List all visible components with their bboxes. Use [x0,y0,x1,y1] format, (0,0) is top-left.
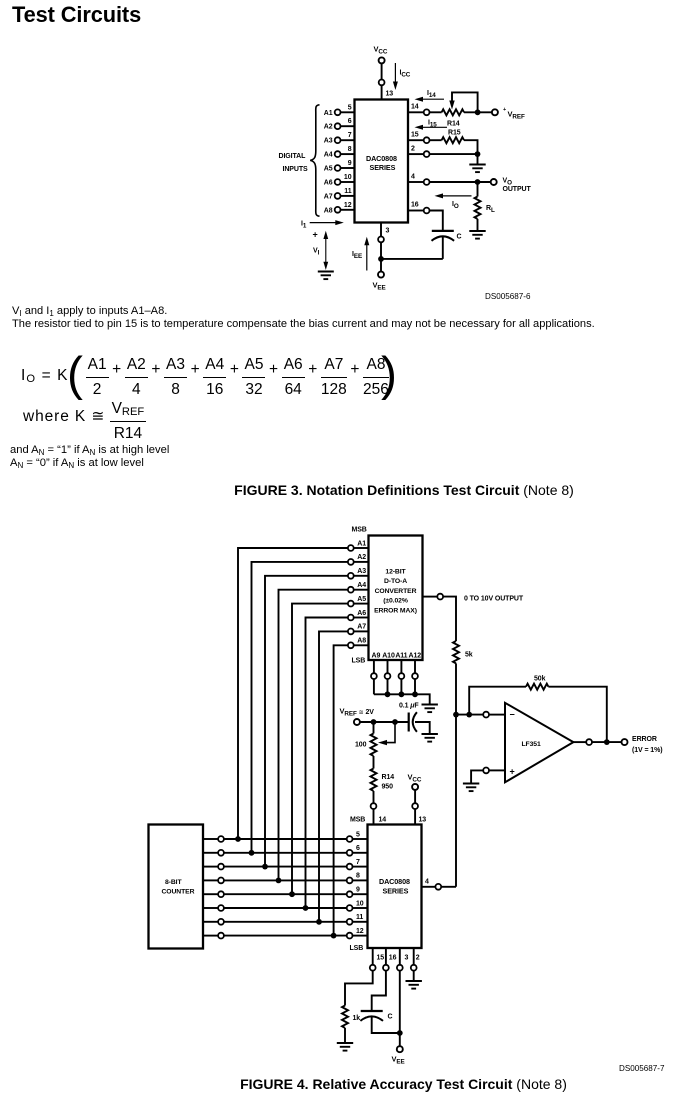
svg-text:3: 3 [405,955,409,962]
wire pin14 [408,111,424,113]
ground at pin2 (fig4) [406,981,422,989]
wire counter to pin 12 [203,935,218,937]
wire LSB common bus to ground [374,694,430,703]
svg-text:COUNTER: COUNTER [162,889,195,896]
wire pin4 to 5k vertical [441,886,456,888]
svg-text:IEE: IEE [352,251,362,260]
wire R15 down to pin2 node [464,140,478,154]
svg-text:VREF ≅ 2V: VREF ≅ 2V [340,707,375,718]
current arrow IEE [352,237,369,271]
terminal A7 [335,193,341,199]
pin 3 circle [378,237,384,243]
wire A4 stub [354,589,369,591]
counter output circle (line 12) [218,933,224,939]
IC U2 12-bit D-to-A converter [369,536,423,661]
wire A5 pin 9 [340,167,354,169]
wire pin2 to ground [413,971,415,980]
terminal A8 converter [348,642,354,648]
svg-text:A2: A2 [324,124,333,131]
current arrow ICC [393,63,411,90]
wire A7 stub [354,630,369,632]
svg-text:4: 4 [425,879,429,886]
wire pot to R14 [373,756,375,769]
wire pin16 to capacitor C [408,210,424,212]
wire pin3 stub [380,223,382,237]
wire A8 run down [334,645,348,933]
wire R14 to pin 14 [373,791,375,803]
pin 14 circle [424,109,430,115]
note line 2 [12,318,595,330]
pin 16 circle [424,208,430,214]
svg-text:8: 8 [348,146,352,153]
wire A9 stub [373,660,375,673]
wire A8 pin 12 [340,209,354,211]
svg-text:ERROR: ERROR [632,736,657,743]
svg-text:DAC0808: DAC0808 [366,154,397,163]
junction node pin3/VEE [378,256,384,262]
inverting input circle [483,712,489,718]
terminal A4 converter [348,587,354,593]
pin 4 wire (DAC fig4) [422,886,436,888]
svg-text:VEE: VEE [392,1055,405,1066]
svg-text:C: C [457,234,462,241]
output pin wire (converter) [423,596,438,598]
wire VREF line [360,721,408,723]
wire A7 run down [319,631,348,919]
pin 15 circle [424,137,430,143]
wire pin15 [408,139,424,141]
ground below VI [318,272,334,280]
svg-text:IO: IO [452,201,459,210]
terminal A2 [335,123,341,129]
counter output circle (line 5) [218,836,224,842]
svg-text:A3: A3 [324,138,333,145]
pin 13 circle (DAC fig4) [412,803,418,809]
junction node pin4/VO [475,179,481,185]
svg-text:A4: A4 [324,152,333,159]
svg-text:SERIES: SERIES [370,163,396,172]
svg-text:100: 100 [355,742,367,749]
svg-text:RL: RL [486,205,495,214]
wire A1 stub [354,547,369,549]
counter output circle (line 11) [218,919,224,925]
IC U1 DAC0808 SERIES (Figure 3) [355,100,409,223]
wire A5 run down [292,604,348,892]
svg-text:0 TO 10V OUTPUT: 0 TO 10V OUTPUT [464,596,524,603]
input pins A1-A8 wires (Figure 3) [340,112,354,210]
junction dot at op-amp node [453,712,459,718]
svg-text:I14: I14 [427,90,436,99]
ground at pin2 node [469,165,485,173]
svg-text:A7: A7 [357,624,366,631]
svg-text:10: 10 [356,900,364,907]
svg-text:ERROR MAX): ERROR MAX) [374,607,417,614]
DAC pin 12 circle [347,933,353,939]
junction A8/12 [331,933,337,939]
svg-text:10: 10 [344,174,352,181]
label DIGITAL INPUTS [279,153,309,173]
junction node pin2 [475,151,481,157]
wire pin 15 stub [372,948,374,965]
svg-text:CONVERTER: CONVERTER [375,588,417,595]
circle A12 [412,673,418,679]
counter to DAC wires (lines 5-12) [203,839,347,936]
counter output circle (line 8) [218,878,224,884]
converter bottom pin stubs [374,660,415,694]
svg-text:6: 6 [356,845,360,852]
wire +input to ground [471,770,505,782]
svg-text:VREF: VREF [508,110,525,121]
junction A7/11 [316,919,322,925]
wire pot wiper loop [452,92,478,112]
pin 16 circle [383,965,389,971]
svg-text:LF351: LF351 [522,741,541,748]
resistor R15 [442,130,464,144]
counter output circles [218,836,224,938]
svg-text:LSB: LSB [352,658,366,665]
wire A4 run down [279,590,349,878]
svg-text:D-TO-A: D-TO-A [384,578,407,585]
equation IO formula [21,356,389,399]
wire circle to DAC pin 6 [353,852,368,854]
wire A3 run down [265,576,348,864]
svg-text:A11: A11 [395,653,407,660]
wire A12 to bus [414,679,416,694]
pin 4 circle (fig4) [435,884,441,890]
wire A11 to bus [400,679,402,694]
svg-text:A4: A4 [357,582,366,589]
pin numbers 5-12 (DAC fig4) [356,831,364,935]
wire pin3 to VEE [399,971,401,1047]
wire A9 to bus [373,679,375,694]
resistor 1k [342,1006,360,1028]
pin 4 circle [424,179,430,185]
terminal A3 [335,137,341,143]
wire counter to pin 5 [203,838,218,840]
DAC pin 10 circle [347,905,353,911]
wire A1 pin 5 [340,111,354,113]
svg-text:A5: A5 [324,166,333,173]
svg-text:2: 2 [411,146,415,153]
junction bus A10 [385,691,391,697]
ground at op-amp +input [463,784,479,792]
circle A11 [399,673,405,679]
terminal A5 [335,165,341,171]
svg-text:5: 5 [356,831,360,838]
wire circle to DAC pin 5 [353,838,368,840]
wire pin 16 stub [385,948,387,965]
terminal VO OUTPUT [491,179,497,185]
svg-text:A10: A10 [382,653,395,660]
capacitor C (Figure 3) [432,231,462,241]
wire pin 14 stub [373,809,375,825]
wire A3 stub [354,575,369,577]
svg-text:5k: 5k [465,652,473,659]
terminal VREF 2V [354,719,360,725]
svg-text:+: + [510,766,515,776]
capacitor 0.1uF plates [409,712,430,733]
wire pin2 node to ground [477,154,479,163]
wire pin16 to capacitor C [372,971,386,1010]
svg-text:A6: A6 [357,610,366,617]
wire counter to pin 9 [203,893,218,895]
source VI measurement arrow [313,231,328,270]
wire pin 3 stub [399,948,401,965]
ground below RL [469,231,485,239]
svg-text:MSB: MSB [352,527,367,534]
DAC pin 5 circle [347,836,353,842]
DAC pin 6 circle [347,850,353,856]
svg-text:8: 8 [356,873,360,880]
svg-text:15: 15 [377,955,385,962]
svg-text:R15: R15 [448,130,461,137]
wire 1k to ground [344,1028,346,1042]
wire node to RL [477,182,479,197]
IC U4 8-bit counter [149,825,204,949]
wire to error terminal [592,741,622,743]
counter output circle (line 9) [218,891,224,897]
terminal A5 converter [348,601,354,607]
wire circle to DAC pin 12 [353,935,368,937]
svg-text:A1: A1 [357,540,366,547]
wire pin2 [408,153,424,155]
feedback wire with 50k [469,684,607,742]
output circle op-amp [586,739,592,745]
DS005687-6 [485,292,530,301]
svg-text:12: 12 [344,202,352,209]
current arrow I14 [415,90,445,102]
svg-text:1k: 1k [353,1015,361,1022]
ground below 1k [337,1043,353,1051]
wire counter to pin 10 [203,907,218,909]
svg-text:50k: 50k [534,676,546,683]
svg-text:A5: A5 [357,596,366,603]
bottom pin circles [370,965,417,971]
terminal A1 converter [348,545,354,551]
brace digital inputs [310,105,319,216]
svg-text:VI: VI [313,248,320,257]
wire circle to DAC pin 11 [353,921,368,923]
pin 15 circle [370,965,376,971]
svg-text:LSB: LSB [350,945,364,952]
svg-text:ICC: ICC [400,70,411,79]
DAC pin 11 circle [347,919,353,925]
DAC pin 9 circle [347,891,353,897]
svg-text:9: 9 [348,160,352,167]
wire counter to pin 8 [203,879,218,881]
circle A10 [385,673,391,679]
svg-text:VCC: VCC [374,45,388,56]
svg-text:11: 11 [344,188,351,195]
svg-text:0.1 μF: 0.1 μF [399,703,419,710]
svg-text:950: 950 [382,784,394,791]
ground for 0.1uF cap [422,734,438,742]
figure 3 caption [0,482,692,498]
counter output circle (line 6) [218,850,224,856]
IC U3 DAC0808 SERIES (Figure 4) [368,825,422,949]
svg-text:VCC: VCC [408,773,422,784]
svg-text:7: 7 [356,859,360,866]
wire A2 stub [354,561,369,563]
current arrow I1 [301,220,344,229]
wire circle to DAC pin 9 [353,893,368,895]
terminal A4 [335,151,341,157]
svg-text:C: C [388,1014,393,1021]
junction A4/8 [276,878,282,884]
svg-text:OUTPUT: OUTPUT [503,186,532,193]
non-inverting input circle [483,768,489,774]
labels A1-A8 (converter) [357,540,366,644]
terminal VEE (fig4) [397,1046,403,1052]
pin 3 circle [397,965,403,971]
wire A2 pin 6 [340,125,354,127]
svg-text:2: 2 [416,955,420,962]
svg-text:16: 16 [389,955,397,962]
wire output to 5k [443,597,456,641]
junction node R14/VREF [475,109,481,115]
terminal ERROR [622,739,628,745]
figure 4 caption [0,1076,692,1092]
converter bottom pin circles [371,673,418,679]
wire A12 stub [414,660,416,673]
junction bus A11 [399,691,405,697]
svg-text:6: 6 [348,118,352,125]
capacitor C (fig4) [360,1011,392,1021]
junction dot VEE node [397,1030,403,1036]
wire A4 pin 8 [340,153,354,155]
svg-text:+: + [313,230,318,240]
DAC bottom pin stubs 15 16 3 2 [373,948,414,965]
svg-text:11: 11 [356,914,363,921]
svg-text:12-BIT: 12-BIT [385,569,406,576]
wire A7 pin 11 [340,195,354,197]
wire 5k down to pin4 line [455,663,457,886]
potentiometer 100 [355,722,395,756]
note line 1 [12,305,167,317]
DAC pin 7 circle [347,864,353,870]
terminal +VREF [492,109,498,115]
wire circle to DAC pin 7 [353,866,368,868]
wire A8 stub [354,644,369,646]
svg-text:13: 13 [386,91,394,98]
input terminals A1-A8 circles (Figure 3) [335,109,341,212]
svg-text:SERIES: SERIES [383,887,409,896]
wire A3 pin 7 [340,139,354,141]
counter output circle (line 10) [218,905,224,911]
pin numbers 5-12 (Figure 3) [344,104,352,209]
counter output circle (line 7) [218,864,224,870]
svg-text:12: 12 [356,928,364,935]
svg-text:15: 15 [411,132,419,139]
svg-text:−: − [510,710,515,720]
wire pin 2 stub [413,948,415,965]
svg-text:3: 3 [386,228,390,235]
current arrow I15 [415,120,448,130]
wire pin 13 stub [414,809,416,825]
terminal VCC [379,57,385,63]
circle A9 [371,673,377,679]
labels A1-A8 (Figure 3) [324,110,333,215]
wire A1 run down [238,548,348,837]
wire circle to DAC pin 10 [353,907,368,909]
wire pin3 to VEE [380,242,382,272]
terminal A6 [335,179,341,185]
terminal A6 converter [348,615,354,621]
svg-text:A8: A8 [357,638,366,645]
pin numbers 15 16 3 2 [377,955,420,962]
junction A3/7 [262,864,268,870]
terminal VEE [378,272,384,278]
pin 2 circle [411,965,417,971]
wire VCC to pin 13 [381,64,383,100]
wire RL to ground [477,219,479,230]
svg-text:(±0.02%: (±0.02% [383,598,408,605]
svg-text:14: 14 [379,817,387,824]
converter input circles A1-A8 [348,545,354,648]
wire capacitor C to bottom rail [442,236,444,259]
svg-text:R14: R14 [447,121,460,128]
note AN lines [10,444,169,456]
pin 14 circle (DAC fig4) [371,803,377,809]
junction A2/6 [249,850,255,856]
svg-text:+: + [503,107,506,113]
svg-text:9: 9 [356,887,360,894]
junction A6/10 [303,905,309,911]
svg-text:14: 14 [411,104,419,111]
terminal A2 converter [348,559,354,565]
wire A2 run down [252,562,349,850]
DAC pin 8 circle [347,878,353,884]
svg-text:16: 16 [411,202,419,209]
terminal VCC (fig4) [412,784,418,790]
svg-text:DAC0808: DAC0808 [379,877,410,886]
wire counter to pin 6 [203,852,218,854]
svg-text:A12: A12 [409,653,422,660]
svg-text:I15: I15 [428,120,437,129]
wire A10 to bus [387,679,389,694]
svg-text:5: 5 [348,104,352,111]
wire circle to DAC pin 8 [353,879,368,881]
DAC input circles pins 5-12 [347,836,353,938]
svg-text:(1V = 1%): (1V = 1%) [632,747,662,754]
junction dot output/feedback [604,739,610,745]
op-amp U5 LF351 [505,703,573,783]
resistor R14 950 [371,769,395,791]
junction bus A12 [412,691,418,697]
junction A5/9 [289,891,295,897]
wire counter to pin 7 [203,866,218,868]
wire counter to pin 11 [203,921,218,923]
wire node to inverting input [456,714,483,716]
junction dot at wiper [392,719,398,725]
page title [12,2,141,28]
wire A5 stub [354,603,369,605]
converter input wires A1-A8 with corner turns [238,548,369,933]
wire pin15 to 1k [345,971,373,1006]
terminal A8 [335,207,341,213]
terminal A7 converter [348,629,354,635]
svg-text:INPUTS: INPUTS [283,166,309,173]
wire bottom rail [381,258,443,260]
wire capacitor to VEE node [372,1016,400,1033]
wires DAC circle to box [353,839,368,936]
op-amp output wire [573,741,586,743]
svg-text:A2: A2 [357,554,366,561]
potentiometer R14 [442,101,464,128]
output circle (converter) [437,594,443,600]
svg-text:4: 4 [411,173,415,180]
svg-text:A8: A8 [324,207,333,214]
